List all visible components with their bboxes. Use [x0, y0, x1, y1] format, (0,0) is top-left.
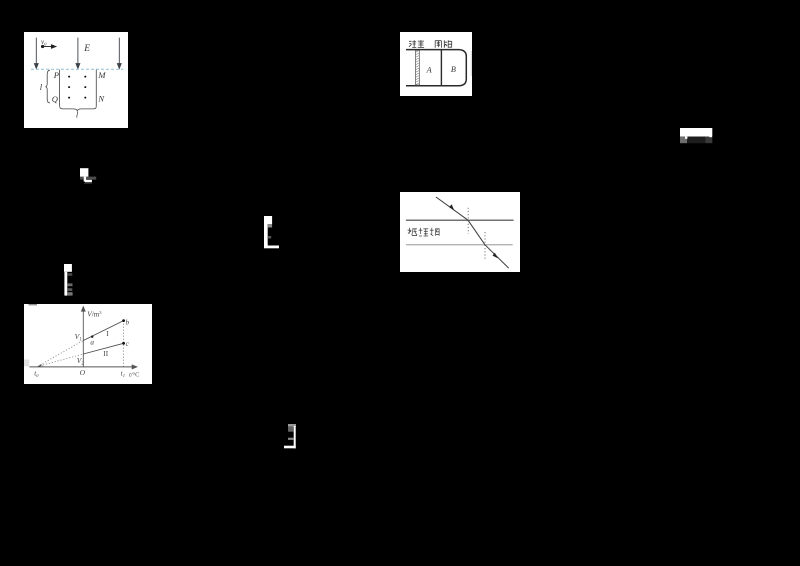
cylinder rounded right end — [459, 50, 466, 86]
v0 velocity arrow — [41, 45, 56, 48]
field region left vertical line PQ — [59, 70, 61, 107]
angle arc at t0 — [41, 364, 44, 366]
refracted exit ray — [485, 245, 509, 268]
figure 3: light ray through glass plate — [400, 192, 520, 272]
label 活塞 (piston) fake glyphs — [409, 40, 424, 47]
partition line — [440, 50, 442, 86]
x axis — [29, 365, 136, 369]
glass top surface — [406, 219, 514, 221]
svg-text:N: N — [97, 93, 105, 103]
svg-text:B: B — [451, 65, 456, 74]
field region right vertical line MN — [95, 70, 97, 107]
svg-text:a: a — [90, 338, 94, 346]
figure 4: V-t graph — [24, 304, 152, 384]
dotted extrapolation of I — [37, 341, 83, 367]
point a — [91, 335, 94, 338]
piston (hatched) — [415, 50, 419, 85]
svg-text:t/°C: t/°C — [129, 371, 139, 378]
bottom curly brace for l — [60, 106, 97, 111]
figure 1: charged particle in E and B fields — [24, 32, 128, 128]
svg-text:II: II — [103, 350, 108, 358]
light gray blob at left edge — [24, 360, 29, 367]
cylinder bottom wall — [406, 85, 459, 87]
cylinder top wall — [406, 49, 459, 51]
svg-text:l: l — [40, 82, 43, 92]
svg-text:M: M — [97, 70, 106, 80]
exit arrowhead — [493, 253, 498, 259]
faint inner line — [470, 51, 472, 76]
svg-text:A: A — [426, 66, 433, 75]
fragment D (partial formula image) — [680, 128, 713, 149]
svg-text:I: I — [106, 330, 109, 338]
svg-text:l: l — [76, 110, 79, 120]
incident arrowhead — [449, 204, 454, 210]
fragment E (partial formula image) — [284, 424, 297, 454]
svg-text:V/m3: V/m3 — [87, 310, 102, 319]
line I — [83, 321, 123, 341]
fragment B (partial formula image) — [264, 216, 280, 254]
boundary dashed line — [31, 68, 124, 70]
svg-text:t0: t0 — [34, 369, 39, 378]
y axis — [82, 307, 86, 367]
left curly brace for l — [45, 70, 50, 103]
ray inside glass — [468, 220, 485, 245]
E-field arrow middle — [76, 38, 80, 69]
svg-text:Q: Q — [52, 94, 58, 104]
line II — [83, 343, 123, 354]
svg-text:O: O — [80, 368, 86, 377]
svg-text:V1: V1 — [75, 332, 82, 343]
fragment A (partial formula image) — [80, 168, 97, 190]
vertical dotted line at t1 — [123, 321, 125, 367]
svg-text:t1: t1 — [121, 369, 125, 378]
incident ray — [436, 197, 468, 220]
E-field arrow left — [34, 38, 38, 69]
t0 convergence dot — [37, 364, 41, 366]
svg-text:b: b — [126, 319, 130, 327]
point c — [122, 342, 125, 345]
top edge smudge — [29, 304, 38, 305]
svg-text:P: P — [53, 70, 59, 80]
label 隔板 (partition) fake glyphs — [435, 40, 452, 47]
figure 2: gas cylinder with piston and partition — [400, 32, 472, 96]
dotted extrapolation of II — [37, 354, 83, 367]
svg-text:E: E — [83, 44, 90, 54]
normal at exit (dotted) — [484, 232, 486, 259]
glass bottom surface — [406, 244, 513, 246]
B-field dots (2 cols x 3 rows) — [68, 76, 86, 99]
normal at entry (dotted) — [467, 208, 469, 234]
fragment C (partial formula image) — [64, 264, 74, 301]
svg-text:v0: v0 — [41, 38, 47, 47]
point b — [122, 319, 125, 322]
label 玻璃板 (glass plate) fake glyphs — [408, 228, 440, 236]
E-field arrow right — [117, 38, 121, 69]
svg-text:c: c — [126, 340, 130, 348]
